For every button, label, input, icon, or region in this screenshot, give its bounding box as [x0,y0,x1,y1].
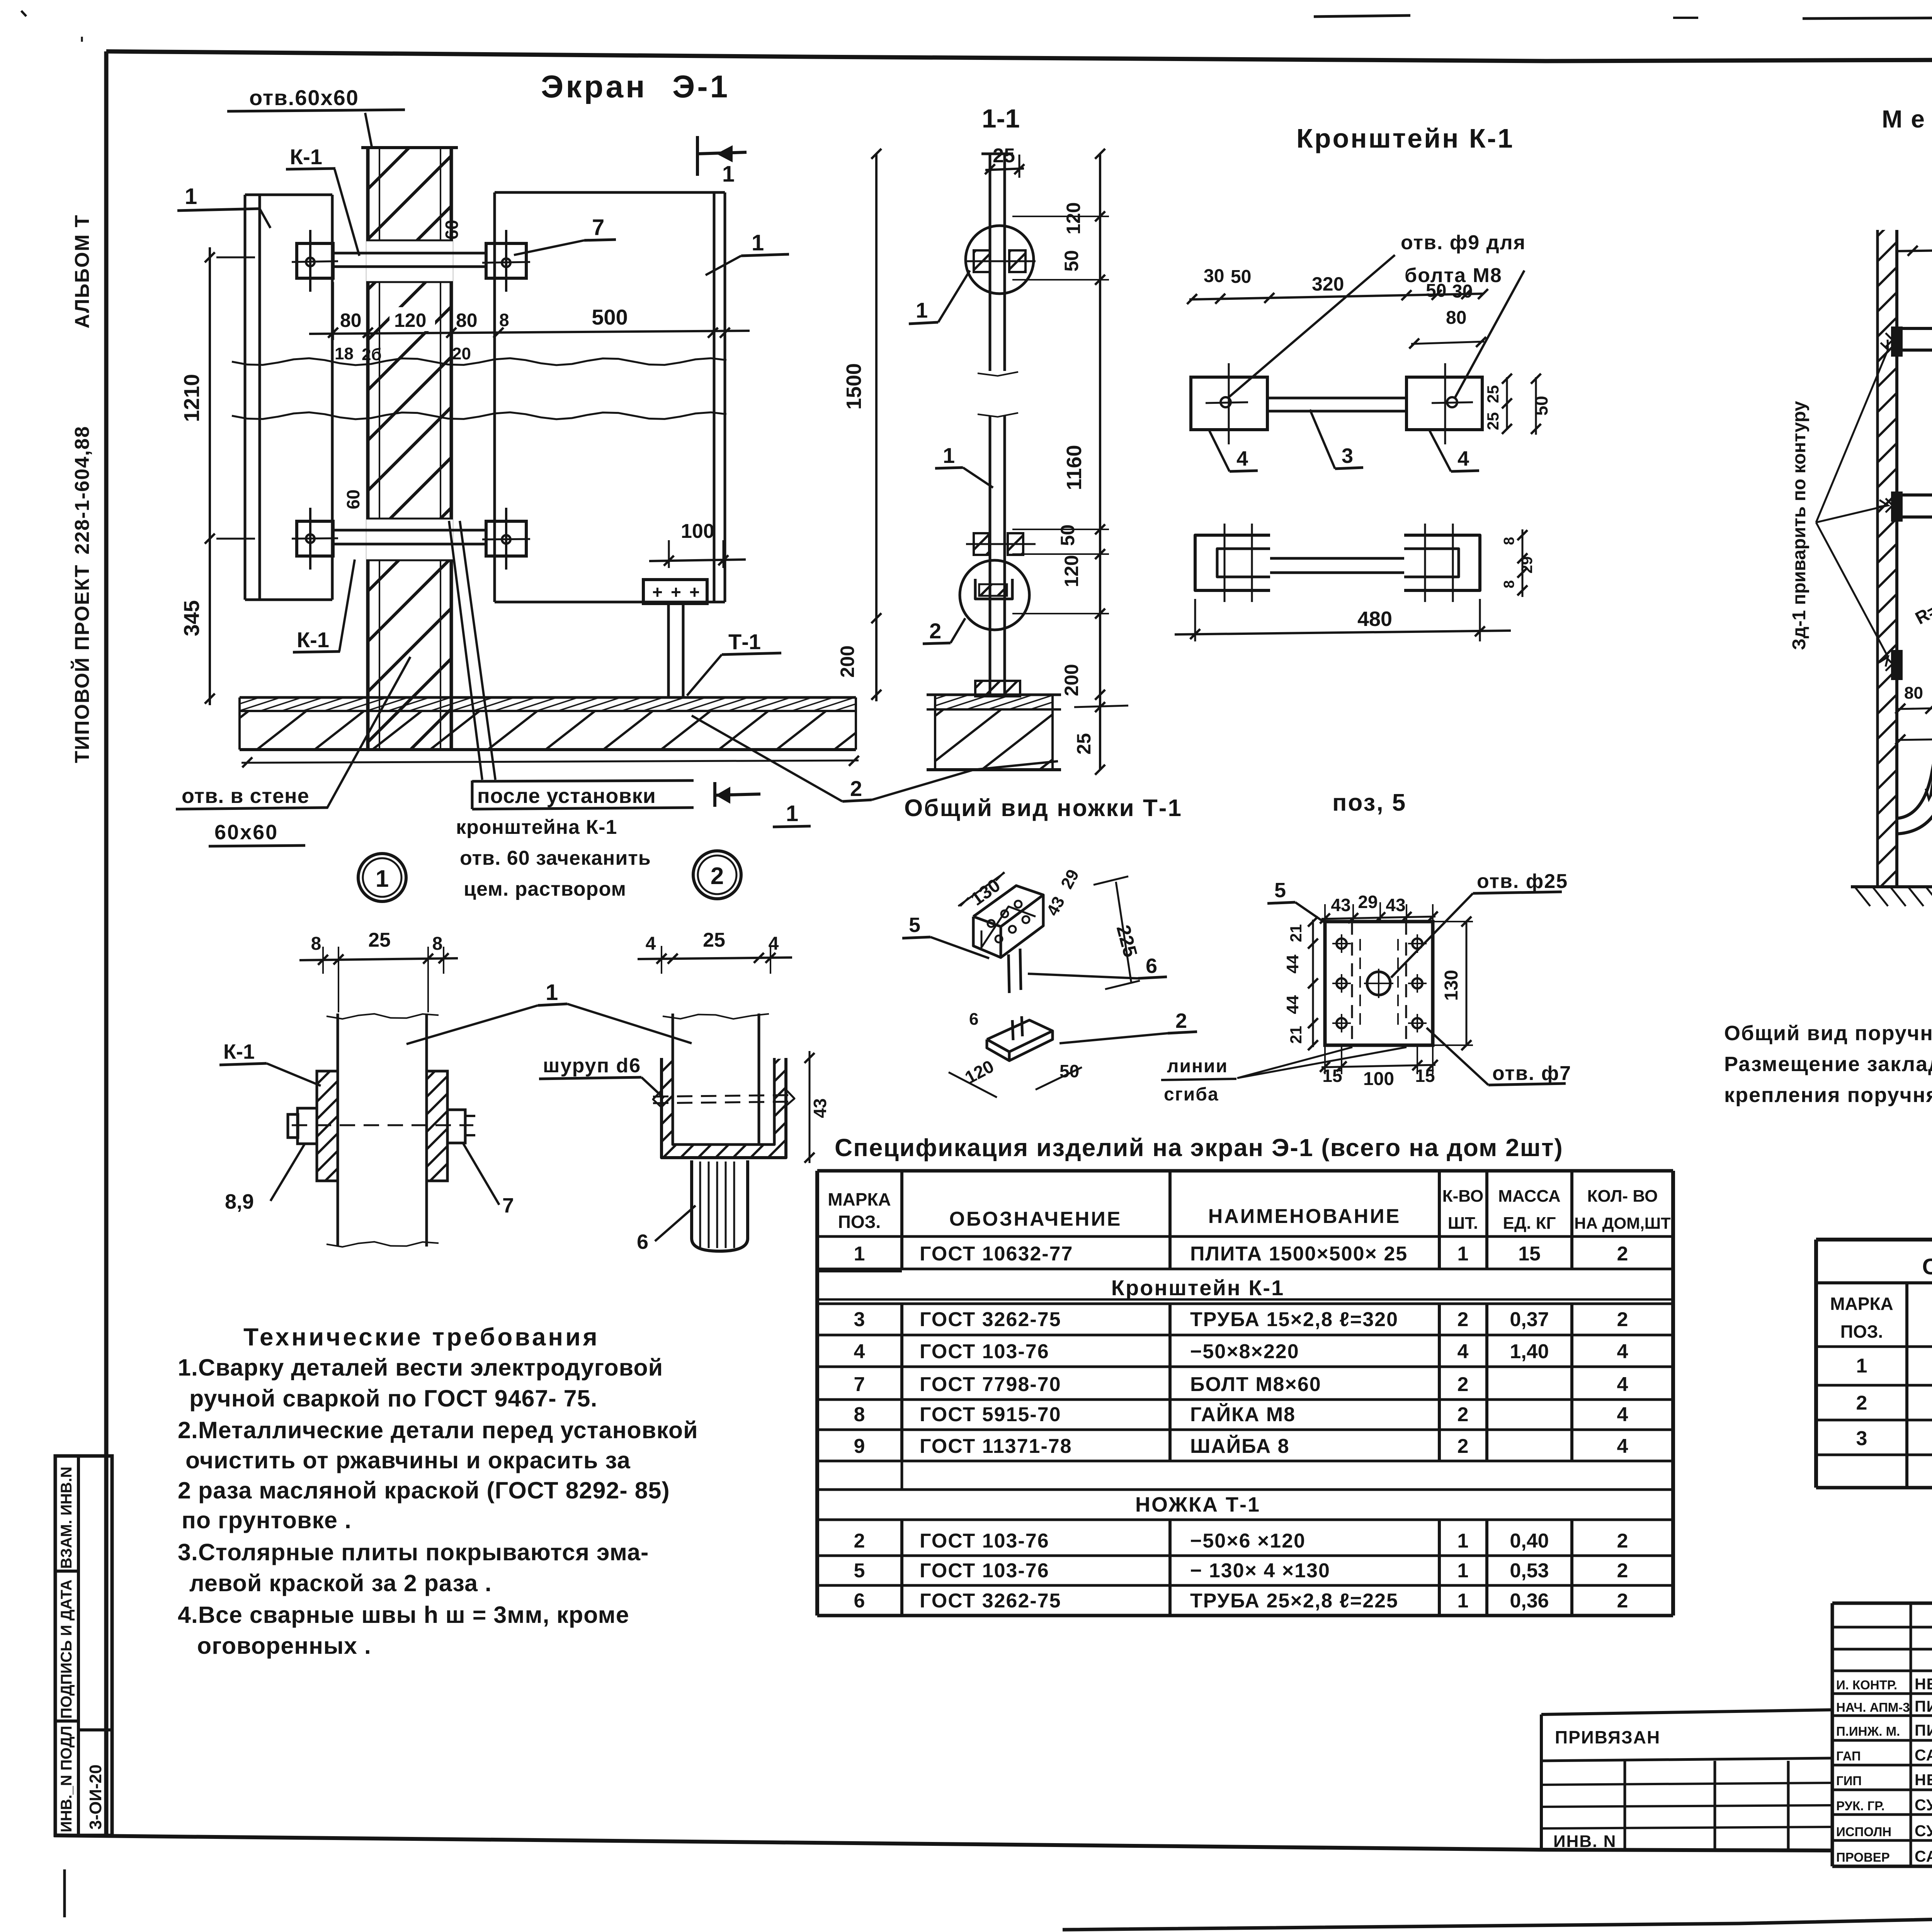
svg-text:ТИПОВОЙ ПРОЕКТ: ТИПОВОЙ ПРОЕКТ [71,564,94,763]
svg-text:НЕКЛЮДОВ: НЕКЛЮДОВ [1915,1771,1932,1789]
svg-text:200: 200 [1061,664,1082,696]
svg-text:ГОСТ 103-76: ГОСТ 103-76 [920,1560,1049,1582]
wall inner face thin lines [379,148,380,750]
svg-text:4.Все сварные швы h ш =: 4.Все сварные швы h ш = 3мм, кроме [178,1602,629,1628]
svg-text:САБО: САБО [1915,1847,1932,1865]
svg-text:+: + [652,582,663,602]
svg-text:МАРКА: МАРКА [1830,1294,1893,1314]
svg-text:120: 120 [1063,202,1084,234]
title block bottom edge [1832,1865,1932,1868]
leg T-1 stem [667,604,670,698]
signature table of title block [1832,1602,1932,1605]
section mark 1-1 top [696,136,699,176]
detail 2 channel shoe hatched [662,1058,786,1158]
svg-text:20: 20 [452,344,471,363]
top-left tiny mark [21,11,26,16]
sheet frame: left border line [104,51,109,1836]
bracket plan: tie rod double line [1269,397,1406,400]
svg-text:1: 1 [752,230,764,255]
upper bracket cross-section hatched [974,250,990,272]
sheet frame: top border line [106,51,1932,61]
detail 1 bolt head and washer [298,1108,317,1144]
bracket lower view: left channel [1195,535,1270,590]
bracket plan: left plate [1191,377,1267,430]
detail 2 screw dashed line [653,1095,794,1097]
detail circle 2 [960,560,1029,630]
svg-text:4: 4 [854,1340,865,1363]
upper bracket left plate [297,243,333,278]
svg-text:линии: линии [1167,1056,1228,1077]
svg-text:1: 1 [786,801,798,826]
detail circle mark 2 [693,851,741,899]
svg-text:отв.60х60: отв.60х60 [249,85,359,110]
svg-text:1: 1 [1856,1355,1867,1377]
upper bracket right plate [486,243,526,278]
attachment table left of title block [1541,1710,1832,1714]
svg-text:2.Металлические детали перед: 2.Металлические детали перед установкой [178,1417,698,1443]
svg-text:Размещение закладных для: Размещение закладных для [1724,1053,1932,1076]
svg-text:ТРУБА 25×2,8 ℓ=225: ТРУБА 25×2,8 ℓ=225 [1190,1590,1398,1612]
svg-text:15: 15 [1415,1066,1435,1086]
svg-text:+: + [671,582,681,602]
svg-text:2: 2 [1617,1590,1628,1612]
svg-text:0,36: 0,36 [1510,1590,1549,1612]
svg-text:по грунтовке .: по грунтовке . [182,1507,352,1533]
svg-text:Технические требования: Технические требования [243,1323,600,1351]
svg-text:НЕКЛЮДОВ: НЕКЛЮДОВ [1915,1675,1932,1693]
svg-text:Кронштейн К-1: Кронштейн К-1 [1296,123,1514,153]
svg-text:2: 2 [1617,1560,1628,1582]
svg-text:ПЛИТА 1500×500× 25: ПЛИТА 1500×500× 25 [1190,1243,1408,1265]
svg-text:ПОЗ.: ПОЗ. [838,1212,881,1232]
svg-text:4: 4 [646,934,656,954]
bottom border line [54,1835,1832,1850]
svg-text:П.ИНЖ. М.: П.ИНЖ. М. [1836,1724,1900,1738]
svg-text:5: 5 [909,913,920,937]
svg-text:ПИЧУГИН: ПИЧУГИН [1915,1697,1932,1715]
svg-text:САБО: САБО [1915,1746,1932,1764]
svg-text:25: 25 [703,929,725,951]
svg-text:25: 25 [1484,385,1502,403]
svg-text:7: 7 [592,215,604,240]
svg-text:8: 8 [1501,537,1517,545]
svg-text:К-ВО: К-ВО [1442,1187,1483,1206]
svg-text:120: 120 [1061,555,1082,587]
svg-text:4: 4 [1458,447,1469,470]
svg-text:21: 21 [1287,1026,1305,1044]
bracket lower view: right channel [1404,535,1480,590]
svg-text:Т-1: Т-1 [728,629,761,654]
svg-text:2: 2 [1175,1009,1187,1032]
svg-text:1-1: 1-1 [982,104,1020,133]
svg-text:6: 6 [969,1010,978,1029]
post item 3 leaning with bottom bend R100 [1897,352,1932,818]
detail 1 bolt dashed line [292,1124,473,1126]
svg-text:345: 345 [179,600,204,636]
svg-text:2б: 2б [362,345,382,364]
detail 1 panel [337,1014,339,1247]
svg-text:ПОДПИСЬ И ДАТА: ПОДПИСЬ И ДАТА [58,1580,75,1719]
middle bracket section [974,533,989,555]
svg-text:И. КОНТР.: И. КОНТР. [1836,1678,1897,1692]
svg-text:левой краской за 2 раза .: левой краской за 2 раза . [189,1570,492,1596]
floor of section 1-1 [935,695,1053,709]
svg-text:ручной сваркой по ГОСТ 9467-: ручной сваркой по ГОСТ 9467- 75. [189,1385,597,1412]
svg-text:ПРИВЯЗАН: ПРИВЯЗАН [1555,1727,1660,1747]
svg-text:очистить от ржавчины и окр: очистить от ржавчины и окрасить за [185,1447,631,1473]
bracket plan: right plate [1406,377,1482,430]
hole through wall at lower bracket [366,519,453,560]
svg-text:43: 43 [1386,895,1405,915]
svg-text:после установки: после установки [477,784,656,808]
section mark 1 bottom [713,782,716,807]
svg-text:2: 2 [1617,1308,1628,1331]
svg-text:ИСПОЛН: ИСПОЛН [1836,1825,1891,1839]
embedded plates on wall face [1891,327,1903,357]
dim 25 bottom right [1074,706,1128,707]
svg-text:2: 2 [1458,1308,1469,1331]
svg-text:500: 500 [592,305,628,329]
svg-text:2: 2 [1856,1392,1867,1414]
svg-text:2 раза масляной краской (ГО: 2 раза масляной краской (ГОСТ 8292- 85) [178,1477,670,1503]
svg-text:ГОСТ 5915-70: ГОСТ 5915-70 [920,1403,1061,1426]
plate in section upper part [989,154,992,371]
svg-text:2: 2 [929,619,941,643]
svg-text:К-1: К-1 [223,1040,255,1063]
svg-text:200: 200 [837,645,858,677]
svg-text:60х60: 60х60 [214,821,278,844]
svg-text:2: 2 [1617,1530,1628,1552]
svg-text:18: 18 [335,344,354,363]
svg-text:80: 80 [340,310,362,331]
svg-text:отв. ф25: отв. ф25 [1477,870,1568,893]
svg-text:Экран: Экран [541,69,647,104]
svg-text:0,53: 0,53 [1510,1560,1549,1582]
svg-text:сгиба: сгиба [1164,1084,1219,1105]
svg-text:8: 8 [432,934,443,954]
svg-text:3: 3 [1856,1427,1867,1450]
dimension line below floor [241,760,859,763]
poz5 holes [1337,939,1347,949]
svg-text:+: + [689,582,700,602]
svg-text:80: 80 [456,310,478,331]
svg-text:крепления поручня см. лист 1: крепления поручня см. лист 10. [1724,1083,1932,1107]
svg-text:шуруп d6: шуруп d6 [543,1054,641,1077]
svg-text:50: 50 [1426,281,1446,301]
svg-text:5: 5 [1274,879,1286,902]
svg-text:6: 6 [854,1590,865,1612]
svg-text:8: 8 [311,934,321,954]
svg-text:25: 25 [1484,412,1502,430]
svg-text:ГОСТ 103-76: ГОСТ 103-76 [920,1340,1049,1363]
break wavy lines across panels [232,358,726,365]
svg-text:ГИП: ГИП [1836,1774,1862,1788]
svg-text:цем. раствором: цем. раствором [464,878,626,900]
svg-text:43: 43 [1331,895,1350,915]
svg-text:5: 5 [854,1560,865,1582]
axon stem tube [1009,954,1009,993]
svg-text:2: 2 [1458,1435,1469,1458]
detail circle mark 1 [358,854,406,901]
svg-text:поз, 5: поз, 5 [1332,789,1406,816]
left screen panel item 1 [244,195,247,600]
svg-text:2: 2 [1458,1373,1469,1396]
svg-text:ШТ.: ШТ. [1448,1214,1478,1233]
wall hatched strip 2-2 [1878,230,1897,887]
svg-text:К-1: К-1 [290,145,322,169]
bracket lower view: rod [1270,557,1404,560]
svg-text:ТРУБА 15×2,8 ℓ=320: ТРУБА 15×2,8 ℓ=320 [1190,1308,1398,1331]
svg-text:320: 320 [1312,273,1344,295]
bottom-left scan dash [63,1869,66,1917]
svg-text:1: 1 [943,443,955,468]
dims 8 29 8 right of lower view [1522,529,1524,597]
svg-text:ШАЙБА 8: ШАЙБА 8 [1190,1435,1290,1458]
svg-text:4: 4 [1617,1435,1628,1458]
svg-text:БОЛТ М8×60: БОЛТ М8×60 [1190,1373,1321,1396]
wall column hatched [368,148,451,750]
svg-text:ГОСТ 11371-78: ГОСТ 11371-78 [920,1435,1072,1458]
svg-text:3.Столярные плиты покрывают: 3.Столярные плиты покрываются эма- [178,1539,649,1565]
svg-text:1: 1 [1458,1243,1469,1265]
svg-text:44: 44 [1283,995,1302,1014]
svg-text:ГОСТ 103-76: ГОСТ 103-76 [920,1530,1049,1552]
detail circle 1 [966,226,1034,294]
svg-text:1160: 1160 [1063,445,1086,490]
svg-text:Общий вид ножки Т-1: Общий вид ножки Т-1 [904,795,1182,821]
svg-text:отв. 60 зачеканить: отв. 60 зачеканить [460,847,651,869]
bottom scan-edge line [1063,1904,1932,1930]
poz5 fold dashed lines [1351,922,1353,1045]
svg-text:1500: 1500 [842,363,866,410]
svg-text:1: 1 [722,162,735,187]
svg-text:3: 3 [1342,444,1353,468]
svg-text:НА ДОМ,ШТ: НА ДОМ,ШТ [1574,1214,1671,1232]
svg-text:1: 1 [1458,1590,1469,1612]
svg-text:отв. в стене: отв. в стене [182,784,310,808]
svg-text:50: 50 [1061,250,1082,272]
svg-text:7: 7 [854,1373,865,1396]
svg-text:2: 2 [1458,1403,1469,1426]
svg-text:СУВОРОВА: СУВОРОВА [1915,1822,1932,1840]
right screen panel item 1 [493,192,496,602]
svg-text:30: 30 [1204,266,1224,286]
lower bracket right plate [486,521,526,556]
svg-text:СУВОРОВА: СУВОРОВА [1915,1796,1932,1814]
svg-text:Э-1: Э-1 [672,69,730,104]
svg-text:ЕД. КГ: ЕД. КГ [1503,1214,1556,1233]
dim 480 [1194,599,1196,641]
second rail 2-2 [1897,493,1932,497]
svg-text:50: 50 [1531,396,1551,415]
poz5 plate outline [1325,922,1433,1045]
svg-text:60: 60 [442,220,462,240]
weld marks at wall plates [1886,333,1900,347]
svg-text:25: 25 [1073,733,1095,755]
leg T-1 base plate with bolts [643,580,707,604]
lower bracket K-1 tie rod [333,529,486,532]
right dimension chain of 1-1 [1099,154,1101,770]
svg-text:120: 120 [394,310,426,331]
svg-text:1,40: 1,40 [1510,1340,1549,1363]
svg-text:2: 2 [850,776,862,801]
stamp box dividers left column [55,1570,78,1573]
svg-text:1: 1 [1458,1530,1469,1552]
stamp box divider right column [78,1728,112,1731]
svg-text:отв. ф7: отв. ф7 [1492,1062,1571,1085]
svg-text:29: 29 [1358,892,1378,912]
svg-text:4: 4 [1617,1403,1628,1426]
svg-text:кронштейна К-1: кронштейна К-1 [456,816,617,838]
svg-text:1210: 1210 [179,374,204,422]
svg-text:ИНВ. N: ИНВ. N [1553,1832,1616,1851]
poz5 right dim 130 [1466,922,1468,1045]
svg-text:ВЗАМ. ИНВ.N: ВЗАМ. ИНВ.N [58,1467,75,1569]
svg-text:1.Сварку деталей вести элек: 1.Сварку деталей вести электродуговой [178,1354,663,1381]
svg-text:100: 100 [681,520,714,543]
svg-text:8: 8 [1501,580,1517,588]
svg-text:43: 43 [810,1098,830,1118]
svg-text:3: 3 [854,1308,865,1331]
svg-text:15: 15 [1518,1243,1541,1265]
svg-text:100: 100 [1363,1069,1394,1089]
svg-text:9: 9 [854,1435,865,1458]
svg-text:Кронштейн К-1: Кронштейн К-1 [1111,1276,1284,1300]
svg-text:50: 50 [1057,524,1078,546]
svg-text:50: 50 [1060,1061,1079,1081]
screw points [653,1090,662,1107]
upper bracket K-1 tie rod [333,252,486,255]
detail 2 wooden leg tube [692,1160,748,1251]
svg-text:ГАП: ГАП [1836,1749,1861,1763]
dimension 500 [367,286,369,340]
svg-text:2: 2 [1617,1243,1628,1265]
svg-text:44: 44 [1283,954,1302,973]
top scan-edge dashes [1314,15,1410,17]
svg-text:0,37: 0,37 [1510,1308,1549,1331]
poz5 center hole f25 [1367,972,1390,995]
svg-text:ГОСТ 3262-75: ГОСТ 3262-75 [920,1308,1061,1331]
svg-text:ИНВ._N ПОДЛ: ИНВ._N ПОДЛ [58,1726,75,1832]
svg-text:1: 1 [1458,1560,1469,1582]
svg-text:1: 1 [376,866,389,892]
svg-text:480: 480 [1357,607,1392,631]
svg-text:отв. ф9 для: отв. ф9 для [1401,231,1526,254]
lower bracket left plate [297,521,333,556]
table P-1 grid [1816,1345,1932,1348]
table P-1 outer and title row [1816,1238,1932,1242]
left dimension chain of 1-1 (1500,200) [875,154,878,701]
svg-text:21: 21 [1287,924,1305,942]
svg-text:1: 1 [185,184,197,209]
svg-text:0,40: 0,40 [1510,1530,1549,1552]
svg-text:НАЧ. АПМ-3: НАЧ. АПМ-3 [1836,1700,1910,1714]
svg-text:МАРКА: МАРКА [828,1189,891,1209]
base plate of leg in 1-1 [975,681,1020,696]
svg-text:80: 80 [1904,684,1923,702]
top rail 2-2 [1897,327,1932,330]
svg-text:ГОСТ 10632-77: ГОСТ 10632-77 [920,1243,1073,1265]
svg-text:2: 2 [711,863,724,889]
svg-text:130: 130 [1441,970,1462,1001]
svg-text:6: 6 [637,1230,648,1253]
svg-text:6: 6 [1146,954,1157,978]
svg-text:228-1-604,88: 228-1-604,88 [71,426,94,554]
svg-text:4: 4 [1458,1340,1469,1363]
svg-text:МАССА: МАССА [1498,1187,1561,1206]
svg-text:ПИЧУГИН: ПИЧУГИН [1915,1721,1932,1739]
svg-text:АЛЬБОМ Т: АЛЬБОМ Т [71,214,94,328]
detail 2 panel [672,1014,674,1144]
svg-text:−50×8×220: −50×8×220 [1190,1340,1299,1363]
svg-text:1: 1 [546,980,558,1005]
svg-text:1: 1 [916,298,928,322]
svg-text:7: 7 [502,1194,514,1217]
svg-text:3-ОИ-20: 3-ОИ-20 [86,1764,105,1830]
plate in section lower part [989,415,992,697]
svg-text:− 130× 4 ×130: − 130× 4 ×130 [1190,1560,1330,1582]
axon base plate [987,1020,1053,1052]
leaders from posle ustanovki note to wall [449,521,482,780]
svg-text:8: 8 [854,1403,865,1426]
floor screed layer [240,697,856,711]
table E-1 grid horizontal lines [817,1169,1673,1173]
svg-text:НАИМЕНОВАНИЕ: НАИМЕНОВАНИЕ [1208,1205,1401,1228]
svg-text:К-1: К-1 [297,628,329,652]
svg-text:2: 2 [854,1530,865,1552]
right small dims 25 25 50 [1506,377,1508,430]
svg-text:оговоренных .: оговоренных . [197,1633,371,1659]
left dimension chain 1210 and 345 [209,247,211,705]
svg-text:8,9: 8,9 [225,1190,254,1213]
svg-text:НОЖКА Т-1: НОЖКА Т-1 [1135,1493,1260,1516]
svg-text:Спецификация изделий на экра: Спецификация изделий на экран Э-1 (всего… [835,1134,1563,1162]
svg-text:60: 60 [343,490,363,509]
svg-text:50: 50 [1231,267,1251,287]
svg-text:Спецификация изделий металл: Спецификация изделий металлического пору… [1922,1254,1932,1279]
detail 1 nut [447,1110,465,1143]
svg-text:25: 25 [368,929,391,951]
svg-text:ПОЗ.: ПОЗ. [1840,1321,1883,1342]
lower bracket channel section [975,579,1012,599]
hole through wall at upper bracket [366,240,453,282]
svg-text:1: 1 [854,1243,865,1265]
ground line and hatch 2-2 [1851,885,1932,888]
table E-1 grid vertical lines [815,1171,819,1269]
svg-text:Общий вид поручня см. лист: Общий вид поручня см. лист 16. [1724,1022,1932,1045]
svg-text:4: 4 [1236,447,1248,470]
floor concrete slab hatched [240,711,856,750]
svg-text:ПРОВЕР: ПРОВЕР [1836,1850,1890,1864]
dim 43 of detail 2 [809,1051,811,1163]
svg-text:ГОСТ 3262-75: ГОСТ 3262-75 [920,1590,1061,1612]
detail 1 hatched clamp plates [317,1071,338,1181]
svg-text:Зд-1 приварить по контуру: Зд-1 приварить по контуру [1789,401,1810,650]
svg-text:ГОСТ 7798-70: ГОСТ 7798-70 [920,1373,1061,1396]
svg-text:Металлический: Металлический [1882,105,1932,133]
left margin stamp boxes [55,1456,112,1835]
svg-text:РУК. ГР.: РУК. ГР. [1836,1799,1885,1813]
svg-text:КОЛ- ВО: КОЛ- ВО [1587,1187,1658,1206]
poz5 left dims 21 44 44 21 [1312,920,1314,1047]
dimension 100 at leg [668,540,670,568]
svg-text:80: 80 [1446,308,1466,328]
axon channel of leg [973,886,1043,927]
svg-text:8: 8 [499,310,509,330]
svg-text:4: 4 [1617,1340,1628,1363]
svg-text:4: 4 [1617,1373,1628,1396]
svg-text:−50×6 ×120: −50×6 ×120 [1190,1530,1306,1552]
